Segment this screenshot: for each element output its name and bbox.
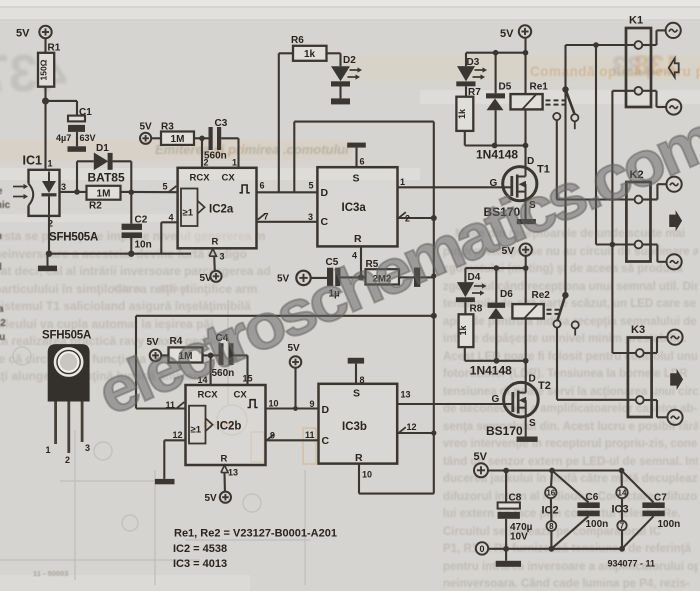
- svg-text:S: S: [353, 173, 360, 185]
- svg-text:5V: 5V: [474, 451, 488, 463]
- svg-text:5V: 5V: [140, 122, 153, 133]
- svg-text:D5: D5: [499, 82, 512, 93]
- svg-text:R: R: [221, 454, 228, 465]
- svg-text:IC2 = 4538: IC2 = 4538: [173, 543, 227, 555]
- svg-text:5V: 5V: [205, 493, 218, 504]
- svg-text:2: 2: [405, 214, 410, 224]
- svg-text:R6: R6: [291, 35, 304, 46]
- svg-text:63V: 63V: [80, 133, 96, 143]
- svg-text:10V: 10V: [510, 532, 528, 543]
- svg-text:Re1: Re1: [530, 82, 549, 93]
- svg-text:G: G: [492, 394, 500, 405]
- svg-text:1M: 1M: [97, 189, 111, 200]
- svg-text:10: 10: [362, 470, 372, 480]
- svg-text:1: 1: [400, 177, 405, 187]
- svg-text:1: 1: [232, 157, 237, 167]
- svg-text:3: 3: [85, 443, 90, 453]
- svg-text:IC3 = 4013: IC3 = 4013: [173, 558, 227, 570]
- svg-text:CX: CX: [222, 173, 236, 184]
- svg-text:IC1: IC1: [23, 154, 43, 168]
- svg-text:3: 3: [220, 252, 225, 262]
- svg-text:C7: C7: [654, 493, 667, 504]
- svg-text:16: 16: [546, 489, 555, 498]
- svg-text:1N4148: 1N4148: [476, 147, 518, 161]
- svg-text:10: 10: [269, 399, 279, 409]
- svg-text:C6: C6: [586, 492, 599, 503]
- svg-text:1k: 1k: [458, 325, 468, 336]
- svg-text:100n: 100n: [586, 519, 609, 530]
- svg-text:Re1, Re2 = V23127-B0001-A201: Re1, Re2 = V23127-B0001-A201: [174, 528, 337, 540]
- svg-text:11: 11: [305, 430, 315, 440]
- svg-text:0: 0: [479, 544, 484, 554]
- svg-text:BS170: BS170: [486, 424, 523, 438]
- svg-text:C: C: [321, 216, 329, 228]
- svg-text:6: 6: [360, 157, 365, 167]
- svg-text:SFH505A: SFH505A: [49, 232, 98, 244]
- svg-text:IC2b: IC2b: [217, 421, 242, 433]
- svg-text:C: C: [322, 435, 330, 447]
- svg-text:K1: K1: [629, 15, 643, 27]
- svg-text:7: 7: [620, 522, 625, 531]
- svg-text:D: D: [529, 373, 536, 384]
- svg-text:IC2a: IC2a: [209, 204, 234, 216]
- svg-text:1k: 1k: [457, 108, 467, 119]
- svg-text:electroschematics.com: electroschematics.com: [88, 103, 700, 428]
- svg-text:S: S: [353, 388, 360, 400]
- svg-text:D: D: [322, 404, 330, 416]
- svg-text:8: 8: [360, 375, 365, 385]
- svg-text:2: 2: [204, 157, 209, 167]
- svg-text:5: 5: [163, 181, 168, 191]
- svg-text:1: 1: [48, 159, 53, 169]
- svg-text:IC3a: IC3a: [342, 202, 367, 214]
- svg-text:5V: 5V: [500, 28, 514, 40]
- svg-text:IC3b: IC3b: [342, 421, 367, 433]
- svg-text:R: R: [355, 452, 363, 464]
- svg-text:CX: CX: [234, 390, 248, 401]
- svg-text:3: 3: [308, 212, 313, 222]
- svg-text:9: 9: [310, 399, 315, 409]
- svg-text:13: 13: [228, 468, 238, 478]
- svg-text:1M: 1M: [171, 134, 185, 145]
- svg-text:12: 12: [407, 422, 417, 432]
- svg-text:IC3: IC3: [612, 504, 629, 516]
- svg-text:5V: 5V: [16, 28, 30, 40]
- svg-text:D2: D2: [343, 55, 356, 66]
- svg-text:1N4148: 1N4148: [470, 364, 512, 378]
- svg-text:5: 5: [309, 181, 314, 191]
- svg-text:G: G: [490, 178, 498, 189]
- svg-text:100n: 100n: [658, 519, 681, 530]
- svg-text:Re2: Re2: [532, 290, 551, 301]
- svg-text:4µ7: 4µ7: [56, 133, 71, 143]
- svg-text:D: D: [527, 156, 534, 167]
- svg-text:150Ω: 150Ω: [39, 59, 49, 80]
- svg-text:8: 8: [549, 522, 554, 531]
- svg-text:BAT85: BAT85: [88, 171, 125, 185]
- svg-text:1k: 1k: [304, 49, 316, 60]
- svg-text:3: 3: [61, 182, 66, 192]
- svg-text:D1: D1: [96, 143, 109, 154]
- svg-text:4: 4: [169, 213, 174, 223]
- svg-text:6: 6: [260, 181, 265, 191]
- svg-text:15: 15: [243, 374, 253, 384]
- svg-text:RCX: RCX: [190, 173, 211, 184]
- svg-text:1: 1: [46, 445, 51, 455]
- svg-text:≥1: ≥1: [191, 425, 202, 436]
- svg-text:12: 12: [173, 430, 183, 440]
- svg-text:934077 - 11: 934077 - 11: [608, 558, 656, 568]
- svg-text:T2: T2: [538, 380, 551, 392]
- svg-text:K3: K3: [631, 324, 645, 336]
- svg-text:S: S: [529, 418, 536, 429]
- svg-text:R8: R8: [470, 304, 483, 315]
- svg-text:9: 9: [270, 431, 275, 441]
- svg-text:R2: R2: [89, 201, 102, 212]
- svg-text:7: 7: [264, 212, 269, 222]
- svg-text:2: 2: [65, 455, 70, 465]
- svg-text:R: R: [354, 233, 362, 245]
- svg-text:≥1: ≥1: [183, 208, 194, 219]
- svg-text:D6: D6: [500, 289, 513, 300]
- svg-text:R: R: [212, 237, 219, 248]
- svg-text:14: 14: [618, 489, 627, 498]
- svg-text:10n: 10n: [135, 240, 152, 251]
- svg-text:13: 13: [401, 390, 411, 400]
- svg-text:SFH505A: SFH505A: [42, 330, 91, 342]
- svg-text:D: D: [321, 187, 329, 199]
